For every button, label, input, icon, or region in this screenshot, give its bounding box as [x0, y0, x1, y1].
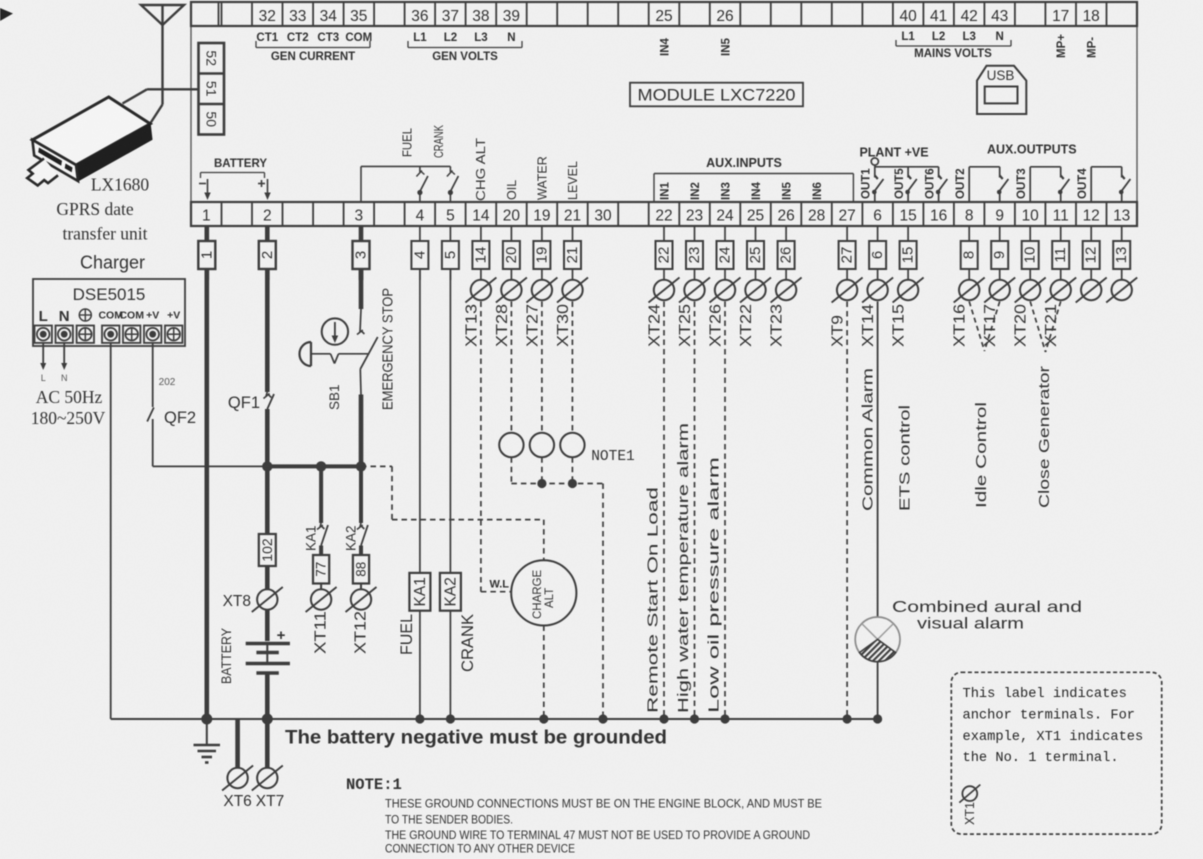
breaker QF2: [147, 408, 196, 467]
aux output OUT3 bridge terminals 10-11: [1030, 167, 1069, 202]
terminal 3 column wire: [353, 226, 370, 309]
charge alternator circle: [511, 560, 576, 723]
top terminal strip (gen current / gen volts / aux inputs 25,26 / mains volts / MP): [191, 2, 1137, 26]
terminal 13 column anchor: [1106, 226, 1137, 303]
water temp sender circle: [530, 433, 554, 457]
anchor XT8: [223, 566, 283, 612]
antenna: [141, 5, 184, 105]
relay coil KA1 branch with fuse 77 anchor XT11: [306, 466, 337, 612]
gen current labels CT1 CT2 CT3 COM bracket: [256, 32, 372, 63]
terminal 15 column anchor XT15: [891, 226, 924, 347]
relay contact box KA2 (crank): [440, 573, 461, 724]
fuse 102 on battery positive: [259, 466, 276, 566]
USB connector: [977, 66, 1026, 114]
gen volts labels L1 L2 L3 N bracket: [408, 32, 522, 63]
XT6 stub terminal and anchor: [222, 719, 253, 810]
aux output OUT2 bridge terminals 8-9: [969, 167, 1008, 202]
anchor terminal explanation text: [963, 687, 1144, 766]
terminal 2 column wire (battery positive): [259, 226, 276, 392]
terminal 5 column wire: [442, 226, 459, 573]
XT7 stub terminal and anchor: [252, 719, 284, 810]
high water temperature input, anchor XT25: [677, 226, 710, 724]
fuel level sender circle: [560, 433, 584, 457]
wire antenna to terminal 51: [123, 89, 199, 123]
fuel and crank output switches above terminals 4 and 5: [361, 166, 458, 202]
battery charger DSE5015 box: [33, 279, 185, 346]
battery symbol: [246, 609, 290, 725]
ground symbol: [194, 719, 221, 763]
example anchor symbol XT1: [959, 785, 980, 825]
charger COM wire to ground bus: [110, 343, 112, 719]
aux output OUT4 bridge terminals 12-13: [1091, 167, 1130, 202]
GPRS modem LX1680 unit drawing: [27, 97, 152, 186]
wire 202 to battery positive junction: [153, 461, 366, 471]
terminal 27 column anchor XT9 common alarm wire: [830, 226, 863, 724]
aux input terminal 26 anchor XT23: [769, 226, 802, 347]
charger terminal screws: [35, 308, 183, 343]
sender common wire to ground: [511, 457, 607, 723]
paper texture: [0, 0, 1, 1]
remote start on load input, anchor XT24: [647, 226, 680, 724]
aux inputs bracket and labels IN1-IN6: [654, 156, 853, 202]
plant +VE supply node and output switches OUT1 OUT5 OUT6: [859, 146, 947, 203]
lower terminal strip of module: [191, 202, 1137, 226]
relay contact box KA1 (fuel): [409, 573, 430, 724]
ground bus wire: [111, 718, 878, 720]
aux input terminal 25 anchor XT22: [738, 226, 771, 347]
terminal 4 column wire: [411, 226, 428, 573]
low oil pressure input, anchor XT26: [708, 226, 741, 724]
terminal 21 column anchor XT30: [555, 226, 588, 433]
combined aural and visual alarm lamp: [855, 617, 900, 724]
wire QF2/202 to charge alternator D+: [361, 466, 544, 560]
terminal 14 column anchor XT13: [463, 226, 511, 592]
module LXC7220 outline box: [191, 26, 1137, 202]
terminal 12 column anchor: [1076, 226, 1107, 303]
terminal 20 column anchor XT28: [494, 226, 527, 433]
emergency stop button SB1: [300, 309, 378, 466]
charger AC input wires L N: [40, 343, 67, 383]
breaker QF1: [228, 392, 274, 466]
terminal 6 column anchor XT14 wire to alarm: [860, 226, 893, 617]
relay coil KA2 branch with fuse 88 anchor XT12: [346, 466, 377, 612]
page edge marker: [0, 8, 13, 21]
oil pressure sender circle: [499, 433, 523, 457]
idle control pair anchors XT16 XT17: [952, 226, 1016, 351]
terminal 19 column anchor XT27: [524, 226, 557, 433]
module label MODULE LXC7220: [630, 83, 803, 107]
charger +V wire 202: [153, 343, 176, 407]
battery bracket label -VE +VE: [199, 158, 271, 200]
mains volts labels L1 L2 L3 N bracket: [896, 31, 1011, 60]
anchor terminal explanation box: [951, 672, 1161, 834]
terminal box 52 51 50: [199, 43, 225, 135]
terminal 1 column wire to ground: [198, 226, 215, 725]
close generator pair anchors XT20 XT21: [1013, 226, 1077, 352]
